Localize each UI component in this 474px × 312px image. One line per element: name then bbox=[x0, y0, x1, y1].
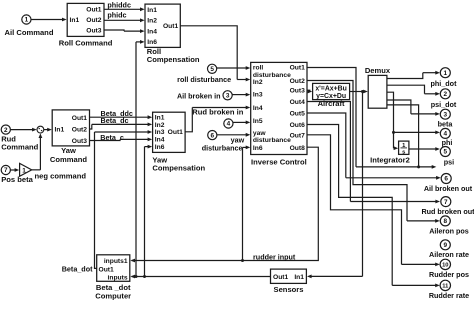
sum junction bbox=[37, 126, 44, 133]
svg-text:Ail Command: Ail Command bbox=[5, 28, 54, 37]
svg-text:Out6: Out6 bbox=[290, 122, 306, 129]
wire Inverse Control Out2 to outport 8 bbox=[307, 81, 407, 221]
svg-text:2: 2 bbox=[4, 127, 8, 134]
svg-text:11: 11 bbox=[442, 284, 449, 290]
outport 5 psi bbox=[440, 147, 450, 157]
svg-text:4: 4 bbox=[444, 131, 448, 138]
svg-text:Out1: Out1 bbox=[99, 266, 115, 273]
wire Pos beta to gain bbox=[10, 169, 15, 171]
svg-text:inputs1: inputs1 bbox=[104, 258, 128, 265]
svg-text:7: 7 bbox=[444, 199, 448, 206]
svg-text:Beta_dc: Beta_dc bbox=[101, 116, 129, 125]
svg-text:Beta_dot: Beta_dot bbox=[62, 264, 93, 273]
wire gain to sum bbox=[32, 169, 41, 171]
svg-text:1: 1 bbox=[22, 167, 26, 174]
inport 3 Ail broken in bbox=[223, 91, 232, 100]
block Aircraft bbox=[313, 83, 350, 99]
svg-text:8: 8 bbox=[444, 218, 448, 225]
wire Inverse Control Out8 rudder input feedback bbox=[132, 147, 319, 260]
svg-text:Rud broken out: Rud broken out bbox=[421, 207, 474, 216]
svg-text:Out1: Out1 bbox=[86, 6, 102, 13]
svg-text:Command: Command bbox=[1, 143, 38, 152]
outport 9 Aileron rate bbox=[440, 240, 450, 250]
svg-text:phidc: phidc bbox=[107, 11, 126, 20]
block Yaw Command bbox=[52, 110, 89, 146]
outport 11 Rudder rate bbox=[440, 280, 450, 290]
block Inverse Control bbox=[251, 62, 307, 154]
wire Inverse Control Out7 to outport 10 bbox=[307, 135, 402, 265]
inport 4 bbox=[224, 119, 233, 128]
wire Inverse Control Out6 to outport 11 bbox=[307, 125, 392, 286]
svg-text:5: 5 bbox=[210, 66, 214, 73]
wire Ail Command to Roll Command In1 bbox=[31, 19, 63, 21]
svg-text:3: 3 bbox=[226, 93, 230, 100]
svg-text:6: 6 bbox=[211, 132, 215, 139]
wire Demux out3 to outport 4 and Integrator2 bbox=[387, 92, 394, 148]
wire Aircraft branch down to Sensors In1 bbox=[362, 92, 364, 277]
wire Demux out4 to outport 3 bbox=[387, 100, 411, 114]
svg-text:6: 6 bbox=[444, 176, 448, 183]
wire roll disturbance to Inverse Control In1 bbox=[217, 67, 247, 69]
svg-text:Beta_c: Beta_c bbox=[100, 133, 124, 142]
svg-text:In2: In2 bbox=[155, 122, 165, 129]
svg-text:In1: In1 bbox=[147, 7, 157, 14]
wire Roll Command Out1 to Roll Compensation In1, label phiddc bbox=[104, 8, 141, 10]
svg-text:10: 10 bbox=[442, 263, 448, 269]
wire Inverse Control Out4 to outport 7 bbox=[307, 102, 350, 202]
svg-text:In5: In5 bbox=[253, 118, 263, 125]
svg-text:Compensation: Compensation bbox=[152, 164, 205, 173]
svg-text:roll disturbance: roll disturbance bbox=[177, 75, 231, 84]
wire Roll Compensation Out1 to Inverse Control In2 bbox=[180, 26, 237, 80]
svg-text:In1: In1 bbox=[55, 126, 65, 133]
svg-text:Out3: Out3 bbox=[86, 27, 102, 34]
block Roll Command bbox=[67, 3, 104, 36]
svg-text:Inverse Control: Inverse Control bbox=[251, 157, 307, 166]
svg-text:disturbance: disturbance bbox=[253, 137, 291, 144]
svg-text:disturbance: disturbance bbox=[202, 144, 243, 153]
svg-text:Aileron rate: Aileron rate bbox=[429, 250, 469, 259]
wire branch up to Roll Compensation In6 bbox=[135, 42, 137, 277]
svg-text:In2: In2 bbox=[147, 18, 157, 25]
svg-text:Ail broken out: Ail broken out bbox=[424, 184, 473, 193]
outport 1 phi_dot bbox=[440, 68, 450, 78]
outport 7 Rud broken out bbox=[441, 197, 451, 207]
wire Demux out5 down to dead-end arrow line bbox=[387, 105, 419, 167]
wire Inverse Control Out1 dead-end arrow bbox=[307, 68, 356, 167]
wire Ail broken in to Inverse Control In3 bbox=[232, 94, 247, 96]
svg-text:In4: In4 bbox=[147, 28, 157, 35]
block Beta_dot Computer bbox=[97, 255, 130, 281]
wire inport 4 to Inverse Control In5 bbox=[233, 121, 247, 123]
inport 2 Rud Command bbox=[1, 125, 10, 134]
svg-text:Out1: Out1 bbox=[273, 274, 289, 281]
wire rudder input branch up to Inverse Control In6 bbox=[242, 147, 244, 260]
outport 3 beta bbox=[440, 109, 450, 119]
svg-text:s: s bbox=[402, 149, 405, 155]
svg-text:In6: In6 bbox=[147, 39, 157, 46]
svg-text:In3: In3 bbox=[253, 91, 263, 98]
wire Yaw Command Out3 to Yaw Compensation In4 bbox=[90, 139, 121, 140]
svg-text:x'=Ax+Bu: x'=Ax+Bu bbox=[315, 86, 347, 93]
svg-text:7: 7 bbox=[4, 167, 8, 174]
svg-text:1: 1 bbox=[25, 17, 29, 24]
svg-text:neg command: neg command bbox=[35, 171, 87, 180]
wire Beta_dot to Yaw Compensation In3, label Beta_c bbox=[95, 132, 97, 268]
svg-text:Computer: Computer bbox=[95, 291, 131, 300]
svg-text:5: 5 bbox=[444, 149, 448, 156]
svg-text:In2: In2 bbox=[253, 79, 263, 86]
svg-text:Aircraft: Aircraft bbox=[318, 99, 345, 108]
wire Aircraft to Demux with branch to Sensors bbox=[350, 91, 365, 93]
svg-text:Out5: Out5 bbox=[290, 111, 306, 118]
svg-text:In4: In4 bbox=[253, 105, 263, 112]
svg-text:disturbance: disturbance bbox=[253, 72, 291, 79]
svg-text:2: 2 bbox=[444, 91, 448, 98]
inport 5 roll disturbance bbox=[208, 64, 217, 73]
wire Yaw Compensation Out1 to Inverse Control In4, label Rud broken in bbox=[185, 108, 192, 132]
svg-text:phi_dot: phi_dot bbox=[431, 79, 458, 88]
svg-text:Out4: Out4 bbox=[290, 99, 306, 106]
svg-text:Out2: Out2 bbox=[72, 126, 88, 133]
svg-text:In1: In1 bbox=[294, 274, 304, 281]
block Sensors bbox=[271, 269, 307, 283]
svg-text:inputs: inputs bbox=[108, 275, 128, 282]
svg-text:Integrator2: Integrator2 bbox=[370, 156, 410, 165]
svg-text:In6: In6 bbox=[253, 145, 263, 152]
svg-text:Rud broken in: Rud broken in bbox=[192, 108, 243, 117]
svg-text:beta: beta bbox=[438, 119, 454, 128]
svg-text:Demux: Demux bbox=[365, 66, 391, 75]
svg-text:9: 9 bbox=[444, 242, 448, 249]
wire sum to Yaw Command In1 bbox=[44, 129, 49, 131]
svg-text:Out2: Out2 bbox=[290, 78, 306, 85]
svg-text:phiddc: phiddc bbox=[107, 1, 131, 10]
wire branch up to Yaw Compensation In6 bbox=[144, 147, 146, 277]
wire Yaw Command Out1 to Yaw Compensation In1, label Beta_ddc bbox=[90, 116, 149, 118]
svg-text:Out8: Out8 bbox=[290, 145, 306, 152]
svg-text:rudder input: rudder input bbox=[253, 253, 296, 262]
inport 7 Pos beta bbox=[1, 165, 10, 174]
svg-text:Roll Command: Roll Command bbox=[59, 39, 113, 48]
svg-text:Rudder pos: Rudder pos bbox=[429, 270, 469, 279]
outport 4 phi bbox=[440, 128, 450, 138]
svg-text:Aileron pos: Aileron pos bbox=[429, 226, 469, 235]
svg-text:Out1: Out1 bbox=[290, 65, 306, 72]
svg-text:Pos beta: Pos beta bbox=[1, 175, 33, 184]
svg-text:Sensors: Sensors bbox=[274, 285, 304, 294]
inport 1 Ail Command bbox=[22, 15, 31, 24]
svg-text:In1: In1 bbox=[155, 114, 165, 121]
svg-text:In1: In1 bbox=[70, 17, 80, 24]
svg-text:In3: In3 bbox=[155, 129, 165, 136]
svg-text:1: 1 bbox=[444, 70, 448, 77]
inport 6 yaw disturbance bbox=[208, 131, 217, 140]
wire Demux out2 to outport 2 bbox=[387, 85, 425, 94]
svg-text:In6: In6 bbox=[155, 144, 165, 151]
svg-text:Out3: Out3 bbox=[290, 88, 306, 95]
wire Roll Command Out2 to Roll Compensation In2, label phidc bbox=[104, 19, 141, 21]
wire Integrator2 to outport 5 psi bbox=[409, 148, 437, 150]
svg-text:roll: roll bbox=[253, 65, 264, 72]
gain neg command bbox=[20, 163, 32, 176]
svg-text:psi_dot: psi_dot bbox=[431, 100, 457, 109]
svg-text:3: 3 bbox=[444, 111, 448, 118]
wire Yaw Command Out2 to Yaw Compensation In2, label Beta_dc bbox=[90, 124, 92, 129]
svg-text:yaw: yaw bbox=[253, 130, 266, 137]
outport 2 psi_dot bbox=[440, 89, 450, 99]
svg-text:Out1: Out1 bbox=[163, 23, 179, 30]
wire Roll Command Out3 to Roll Compensation In4 bbox=[104, 30, 124, 31]
wire Rud Command to sum bbox=[10, 129, 33, 131]
block Roll Compensation bbox=[145, 4, 180, 47]
block Demux bbox=[368, 75, 387, 108]
wire Sensors Out1 to Beta_dot Computer inputs and compensators In6 bbox=[132, 276, 271, 278]
svg-text:psi: psi bbox=[444, 157, 454, 166]
svg-text:4: 4 bbox=[227, 121, 231, 128]
svg-text:Rudder rate: Rudder rate bbox=[429, 291, 469, 300]
svg-text:phi: phi bbox=[442, 138, 453, 147]
svg-text:Out7: Out7 bbox=[290, 132, 306, 139]
wire Demux out1 to outport 1 bbox=[387, 73, 423, 79]
outport 10 Rudder pos bbox=[440, 259, 450, 269]
svg-text:Out1: Out1 bbox=[72, 115, 88, 122]
outport 6 Ail broken out bbox=[441, 174, 451, 184]
svg-text:Command: Command bbox=[50, 155, 87, 164]
svg-text:Ail broken in: Ail broken in bbox=[177, 91, 221, 100]
wire Inverse Control Out5 to outport 6 bbox=[307, 113, 346, 178]
svg-text:Out3: Out3 bbox=[72, 138, 88, 145]
block Yaw Compensation bbox=[153, 112, 186, 152]
block Integrator2 bbox=[399, 141, 409, 154]
svg-text:Compensation: Compensation bbox=[147, 55, 200, 64]
svg-text:Out1: Out1 bbox=[168, 129, 184, 136]
svg-text:In4: In4 bbox=[155, 137, 165, 144]
outport 8 Aileron pos bbox=[440, 216, 450, 226]
wire yaw disturbance to Inverse Control yaw disturbance input bbox=[217, 134, 247, 136]
svg-text:Out2: Out2 bbox=[86, 17, 102, 24]
wire Inverse Control Out3 to Aircraft bbox=[307, 90, 310, 91]
